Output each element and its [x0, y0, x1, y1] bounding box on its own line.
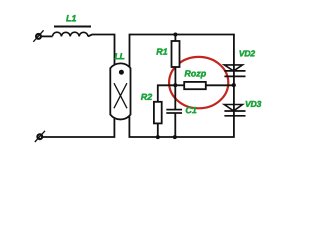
wire R2 bottom to bottom rail — [157, 123, 159, 137]
node A junction dot — [173, 83, 177, 87]
wire R1 bottom to node A — [174, 67, 176, 86]
label R2 — [141, 94, 152, 100]
label C1 — [186, 107, 197, 113]
wire node A down to C1 — [174, 85, 176, 109]
node: R2 bottom junction — [156, 135, 160, 139]
label R1 — [156, 49, 167, 55]
wire node A left and down to R2 — [158, 85, 176, 102]
diode VD2 — [224, 65, 245, 77]
starter Rozp — [184, 82, 206, 89]
lamp X mark — [114, 83, 127, 108]
terminal X2 (bottom left input) — [35, 131, 45, 142]
lamp filament dot — [119, 70, 124, 75]
node: Rozp right junction on diode line — [232, 83, 236, 87]
wire Rozp to diode string — [206, 84, 234, 86]
label VD2 — [240, 50, 256, 56]
wire terminal X1 to L1 — [41, 35, 53, 37]
capacitor C1 — [166, 110, 182, 113]
label Rozp — [185, 70, 206, 78]
resistor R1 — [172, 41, 180, 67]
wire top rail down through VD2 to node and VD3 — [233, 35, 235, 116]
red highlight circle around starter Rozp — [169, 57, 228, 108]
node: R1 top junction on rail — [173, 33, 177, 37]
label VD3 — [246, 101, 262, 107]
diode VD3 — [224, 105, 245, 116]
wire L1 to lamp top-left pin — [88, 35, 115, 67]
wire lamp bottom-left pin to terminal X2 — [41, 117, 115, 137]
resistor R2 — [154, 102, 162, 124]
label LL — [115, 53, 125, 59]
wire C1 bottom to bottom rail — [174, 113, 176, 137]
inductor L1 (ballast coil) — [53, 32, 89, 36]
wire node A to starter Rozp — [175, 84, 184, 86]
wire lamp top-right pin to top rail toward R1 and VD2 — [130, 35, 235, 68]
node: C1 bottom junction — [173, 135, 177, 139]
terminal X1 (top left input) — [33, 30, 43, 42]
bottom rail: lamp bottom-right pin to diode string bottom — [129, 116, 234, 137]
wire rail to R1 — [174, 35, 176, 43]
lamp LL body (fluorescent tube) — [110, 63, 130, 119]
L1 core line — [54, 26, 91, 28]
label L1 — [66, 15, 76, 21]
